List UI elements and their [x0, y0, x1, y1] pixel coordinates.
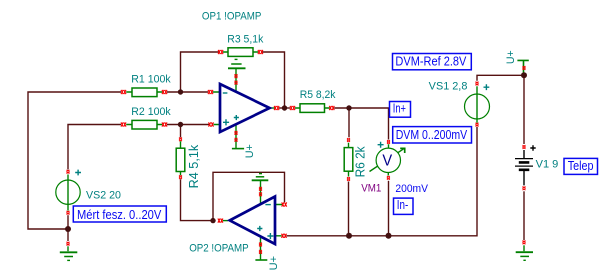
- pin x-mark: [522, 187, 525, 191]
- svg-text:R5 8,2k: R5 8,2k: [300, 89, 336, 101]
- svg-text:200mV: 200mV: [395, 183, 428, 195]
- pin x-mark: [66, 170, 69, 174]
- node C: OP1 out/R3/R5 junction: [282, 105, 287, 110]
- pin x-mark: [259, 187, 262, 191]
- svg-text:DVM-Ref 2.8V: DVM-Ref 2.8V: [395, 54, 467, 68]
- wire: [28, 92, 121, 229]
- svg-text:DVM 0..200mV: DVM 0..200mV: [396, 128, 468, 142]
- pin x-mark: [179, 175, 182, 179]
- svg-text:R6 2k: R6 2k: [354, 146, 368, 178]
- svg-text:U+: U+: [505, 50, 517, 64]
- pin x-mark: [162, 122, 167, 126]
- wire: [388, 181, 390, 234]
- op-amp U2 OP2: [223, 181, 282, 260]
- wire: [523, 78, 525, 145]
- svg-text:R1 100k: R1 100k: [131, 73, 171, 85]
- node A: R1/R3/OP1- junction: [178, 89, 183, 94]
- ground (above OP1, flipped): [228, 59, 246, 68]
- pin x-mark: [522, 241, 525, 245]
- source VS2: [56, 170, 81, 211]
- pin x-mark: [234, 131, 237, 135]
- node H: VM1/In- junction: [386, 233, 392, 239]
- svg-text:Telep: Telep: [568, 159, 594, 173]
- svg-text:R4 5,1k: R4 5,1k: [187, 144, 201, 188]
- wire: [477, 75, 522, 81]
- wire: [167, 124, 209, 126]
- pin x-mark: [475, 123, 478, 127]
- label box: Mert fesz: [73, 206, 166, 222]
- pin x-mark: [234, 81, 237, 85]
- ground (above OP2, flipped): [252, 174, 269, 181]
- resistor R6: [344, 143, 353, 177]
- pin x-mark: [218, 219, 223, 223]
- pin x-mark: [347, 177, 350, 181]
- node D: R5/R6/In+ junction: [346, 105, 351, 110]
- jumper U+ (below OP1): [232, 144, 256, 158]
- svg-text:V: V: [382, 153, 392, 170]
- wire: [287, 127, 478, 236]
- pin x-mark: [259, 193, 262, 197]
- svg-text:R3 5,1k: R3 5,1k: [227, 34, 264, 46]
- resistor R1: [126, 88, 162, 97]
- node G: R6/OP2+ junction: [346, 233, 352, 239]
- svg-text:OP1 !OPAMP: OP1 !OPAMP: [202, 11, 262, 23]
- pin x-mark: [121, 90, 126, 94]
- wire: [263, 52, 285, 106]
- ground (below VS2): [60, 246, 78, 260]
- pin x-mark: [282, 202, 287, 206]
- label box: Telep: [564, 158, 598, 174]
- svg-text:VS1 2,8: VS1 2,8: [429, 81, 468, 93]
- node B: R2/R4/OP1+ junction: [178, 122, 183, 127]
- pin x-mark: [347, 138, 350, 142]
- pin x-mark: [387, 176, 390, 180]
- pin x-mark: [475, 82, 478, 86]
- svg-text:In+: In+: [393, 102, 406, 116]
- pin x-mark: [274, 106, 279, 110]
- wire: [181, 52, 219, 92]
- node F: VS2/ground junction: [65, 226, 71, 232]
- pin x-mark: [234, 74, 237, 78]
- svg-text:V1 9: V1 9: [536, 159, 559, 171]
- svg-text:OP2 !OPAMP: OP2 !OPAMP: [189, 243, 249, 255]
- pin x-mark: [209, 122, 214, 126]
- pin x-mark: [329, 106, 334, 110]
- pin x-mark: [66, 242, 69, 246]
- pin x-mark: [290, 106, 295, 110]
- jumper U+ (below OP2): [255, 256, 280, 270]
- source VS1: [465, 84, 490, 123]
- pin x-mark: [234, 138, 237, 142]
- voltmeter VM1: [370, 142, 405, 176]
- pin x-mark: [66, 211, 69, 215]
- pin x-mark: [121, 122, 126, 126]
- pin x-mark: [218, 50, 223, 54]
- node E: R4/OP2 out/feedback junction: [210, 218, 215, 223]
- svg-text:In-: In-: [397, 198, 409, 212]
- pin x-mark: [208, 90, 213, 94]
- wire: [67, 215, 69, 226]
- pin x-mark: [259, 243, 262, 247]
- wire: [180, 126, 182, 137]
- pin x-mark: [522, 145, 525, 149]
- resistor R5: [295, 104, 330, 113]
- label box: In-: [394, 198, 414, 214]
- wire: [213, 172, 285, 218]
- resistor R2: [126, 120, 162, 129]
- label box: DVM 0..200mV: [393, 127, 472, 143]
- svg-text:R2 100k: R2 100k: [131, 106, 171, 118]
- wire: [334, 108, 388, 140]
- svg-text:VS2 20: VS2 20: [86, 190, 121, 202]
- jumper U+ (top rail): [505, 50, 529, 73]
- pin x-mark: [258, 50, 263, 54]
- node J: U+ rail junction: [521, 72, 527, 78]
- pin x-mark: [179, 138, 182, 142]
- wire: [68, 125, 121, 170]
- op-amp U1 OP1: [213, 69, 275, 148]
- pin x-mark: [162, 90, 167, 94]
- pin x-mark: [282, 234, 287, 238]
- ground (below battery): [516, 245, 533, 260]
- label box: DVM-Ref: [393, 54, 472, 70]
- wire: [279, 107, 290, 109]
- wire: [348, 182, 350, 234]
- battery V1: [515, 145, 536, 185]
- wire: [167, 91, 208, 93]
- label box: In+: [390, 102, 411, 118]
- wire: [523, 191, 525, 240]
- wire: [67, 232, 69, 242]
- pin x-mark: [522, 66, 525, 70]
- svg-text:Mért fesz. 0..20V: Mért fesz. 0..20V: [77, 208, 162, 222]
- pin x-mark: [387, 140, 390, 144]
- svg-text:U+: U+: [268, 256, 280, 270]
- wire: [181, 179, 211, 220]
- resistor R3: [223, 48, 258, 57]
- svg-text:U+: U+: [244, 144, 256, 158]
- resistor R4: [176, 141, 185, 175]
- pin x-mark: [259, 250, 262, 254]
- wire: [348, 110, 350, 137]
- svg-text:VM1: VM1: [361, 183, 381, 195]
